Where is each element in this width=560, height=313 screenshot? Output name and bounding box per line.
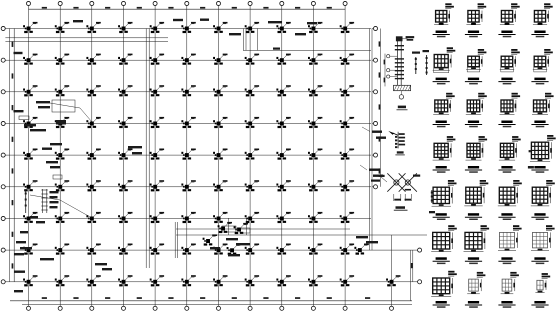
- brace detail circles: [394, 180, 399, 185]
- left stub on KZ-16 square: [529, 150, 531, 152]
- dimension text left span DE: [12, 137, 14, 142]
- column KZ H7: [213, 244, 227, 255]
- column KZ H11: [340, 244, 354, 255]
- column section detail KZ-8: [531, 49, 552, 84]
- grid line 7 (vertical axis): [218, 6, 220, 306]
- column KZ extra near stair: [203, 234, 217, 245]
- column section detail KZ-1: [433, 3, 454, 37]
- column KZ F11: [340, 180, 354, 191]
- column KZ A11: [340, 22, 354, 33]
- grid bubble 2 bottom: [58, 306, 62, 310]
- column KZ F10: [308, 180, 322, 191]
- dimension text left span GH: [12, 232, 14, 237]
- column KZ G1: [23, 212, 37, 223]
- column KZ I2: [55, 275, 69, 286]
- column section detail KZ-28: [531, 273, 550, 308]
- grid bubble 6 top: [185, 1, 189, 5]
- column KZ F8: [245, 180, 259, 191]
- column KZ E4: [118, 149, 132, 160]
- grid bubble G left: [1, 216, 5, 220]
- column elevation label Z-1: [398, 106, 406, 109]
- column section detail KZ-15: [498, 136, 520, 173]
- grid bubble 1 top: [26, 1, 30, 5]
- note text bottom mid: [95, 263, 107, 265]
- column KZ C6: [181, 85, 195, 96]
- grid bubble 1 bottom: [26, 306, 30, 310]
- note text above axis B span 7: [229, 33, 241, 35]
- expansion joint double line (vertical): [145, 29, 147, 269]
- column section detail KZ-23: [498, 225, 522, 264]
- column KZ C11: [340, 85, 354, 96]
- grid bubble A right: [372, 28, 373, 30]
- column KZ E8: [245, 149, 259, 160]
- column KZ F7: [213, 180, 227, 191]
- dimension text bottom span 3: [105, 297, 110, 299]
- column elevation left dimension: [384, 54, 386, 87]
- column KZ A4: [118, 22, 132, 33]
- stair notes: [226, 238, 238, 240]
- grid line 10 (vertical axis): [312, 6, 314, 306]
- dimension text bottom span 5: [168, 297, 173, 299]
- note box left C-D: [19, 116, 29, 120]
- dimension text bottom span 7: [232, 297, 237, 299]
- column KZ B7: [213, 54, 227, 65]
- plan right edge wall line: [369, 29, 371, 251]
- column KZ I7: [213, 275, 227, 286]
- column KZ G7: [213, 212, 227, 223]
- grid bubble B left: [1, 58, 5, 62]
- detail 2-2 arrow: [388, 131, 394, 135]
- column KZ E9: [276, 149, 290, 160]
- column section detail KZ-13: [433, 136, 456, 173]
- brace detail note below: [405, 189, 411, 191]
- right dimension line upper rows: [380, 29, 382, 187]
- column KZ B4: [118, 54, 132, 65]
- leader line left B: [50, 103, 92, 122]
- note left of KZ-17 label: [429, 211, 435, 213]
- column KZ D8: [245, 117, 259, 128]
- column section detail KZ-18: [464, 180, 488, 220]
- dimension text right span: [379, 104, 381, 109]
- column elevation top flag: [403, 38, 408, 40]
- column section detail KZ-3: [498, 3, 519, 37]
- dimension text right span: [379, 168, 381, 173]
- column KZ I10: [308, 275, 322, 286]
- column elevation left callout circles: [387, 55, 390, 58]
- dimension text bottom span 8: [263, 297, 268, 299]
- extra wide label KZ-16a: [528, 166, 534, 169]
- right dimension line lower rows: [412, 250, 414, 282]
- column KZ E7: [213, 149, 227, 160]
- column KZ D3: [86, 117, 100, 128]
- column section detail KZ-20: [531, 180, 555, 220]
- column KZ G3: [86, 212, 100, 223]
- column section detail KZ-16: [530, 135, 556, 173]
- top dimension line: [29, 8, 346, 10]
- column KZ I5: [150, 275, 164, 286]
- note text bottom left upper: [14, 271, 25, 273]
- column KZ F6: [181, 180, 195, 191]
- dimension text top span 10: [327, 7, 332, 9]
- column KZ A10: [308, 22, 322, 33]
- column section detail KZ-9: [433, 93, 455, 128]
- column KZ B1: [23, 54, 37, 65]
- note box left B area: [52, 100, 75, 112]
- column elevation base cap: [394, 85, 411, 90]
- grid bubble C right: [372, 91, 373, 93]
- column section detail KZ-6: [465, 49, 487, 84]
- column section detail KZ-14: [465, 136, 487, 173]
- rebar count bracket 1: [415, 57, 417, 74]
- note text left C-D: [14, 110, 24, 112]
- grid bubble I left: [1, 280, 5, 284]
- stair well box 1: [222, 226, 236, 232]
- note text above axis A span 8: [268, 21, 282, 23]
- grid bubble 3 top: [90, 1, 94, 5]
- column section detail KZ-12: [531, 93, 553, 128]
- column KZ H5: [150, 244, 164, 255]
- column KZ E3: [86, 149, 100, 160]
- column KZ E2: [55, 149, 69, 160]
- column KZ stair a: [218, 222, 232, 233]
- grid line I (horizontal axis): [5, 281, 417, 283]
- column KZ D10: [308, 117, 322, 128]
- column KZ I9: [276, 275, 290, 286]
- column KZ D5: [150, 117, 164, 128]
- detail 2-2 label: [397, 151, 404, 153]
- column KZ H10: [308, 244, 322, 255]
- column elevation base circle: [399, 95, 403, 99]
- grid bubble 7 top: [216, 1, 220, 5]
- detail 2-2 left studs: [395, 136, 397, 138]
- column KZ D4: [118, 117, 132, 128]
- bracket left of ladder: [25, 190, 27, 213]
- column KZ F5: [150, 180, 164, 191]
- column KZ H1: [23, 244, 37, 255]
- grid bubble 9 bottom: [280, 306, 284, 310]
- column KZ stair c: [227, 244, 241, 255]
- column KZ H9: [276, 244, 290, 255]
- grid line C (horizontal axis): [5, 91, 371, 93]
- note small box left C: [56, 120, 66, 125]
- column section detail KZ-10: [465, 93, 487, 128]
- column KZ stair b: [234, 223, 248, 234]
- grid bubble A left: [1, 26, 5, 30]
- grid line F (horizontal axis): [5, 186, 371, 188]
- column KZ C8: [245, 85, 259, 96]
- dimension text top span 8: [263, 7, 268, 9]
- dimension text bottom span 4: [137, 297, 142, 299]
- column KZ extra G-right: [354, 244, 368, 255]
- dimension text bottom span 1: [42, 297, 47, 299]
- grid bubble 8 bottom: [248, 306, 252, 310]
- dimension text top span 7: [232, 7, 237, 9]
- column KZ H3: [86, 244, 100, 255]
- note text left A-B: [14, 52, 23, 54]
- column KZ A8: [245, 22, 259, 33]
- column section detail KZ-11: [498, 93, 520, 128]
- column KZ C3: [86, 85, 100, 96]
- column KZ I8: [245, 275, 259, 286]
- grid line D (horizontal axis): [5, 123, 371, 125]
- column elevation top anchor: [396, 36, 403, 41]
- note text left B1: [36, 101, 50, 103]
- grid bubble 5 bottom: [153, 306, 157, 310]
- dimension text bottom span 9: [295, 297, 300, 299]
- grid bubble 5 top: [153, 1, 157, 5]
- column section detail KZ-2: [465, 3, 486, 37]
- column KZ C1: [23, 85, 37, 96]
- grid bubble F right: [372, 186, 373, 188]
- grid bubble H right extension: [418, 248, 422, 252]
- column section detail KZ-19: [498, 180, 522, 220]
- grid bubble C left: [1, 90, 5, 94]
- dimension text left span AB: [12, 42, 14, 47]
- dimension text left span BC: [12, 73, 14, 78]
- left dimension chain line outer: [8, 29, 10, 282]
- column KZ H6: [181, 244, 195, 255]
- note text on mezzanine line: [273, 48, 280, 50]
- column section detail KZ-26: [465, 272, 486, 308]
- column section detail KZ-7: [498, 49, 519, 84]
- column KZ A9: [276, 22, 290, 33]
- rebar bracket left of KZ-17: [431, 190, 433, 203]
- column KZ G10: [308, 212, 322, 223]
- grid line 11 (vertical axis): [344, 6, 346, 306]
- column KZ C10: [308, 85, 322, 96]
- column KZ G9: [276, 212, 290, 223]
- grid bubble 6 bottom: [185, 306, 189, 310]
- dimension text top span 1: [42, 7, 47, 9]
- column KZ F1: [23, 180, 37, 191]
- column KZ F3: [86, 180, 100, 191]
- column KZ C2: [55, 85, 69, 96]
- column KZ G2: [55, 212, 69, 223]
- column section detail KZ-17: [432, 180, 457, 220]
- note text left F cluster: [30, 216, 38, 218]
- long beam line to detail area: [176, 234, 427, 236]
- grid line E (horizontal axis): [5, 154, 371, 156]
- column KZ B3: [86, 54, 100, 65]
- note text near axis H right: [356, 236, 368, 238]
- dimension text bottom span 10: [327, 297, 332, 299]
- interior partition double line: [174, 222, 176, 258]
- column KZ D2: [55, 117, 69, 128]
- column section detail KZ-4: [531, 3, 552, 37]
- column KZ A3: [86, 22, 100, 33]
- column KZ D6: [181, 117, 195, 128]
- column KZ G4: [118, 212, 132, 223]
- column KZ I6: [181, 275, 195, 286]
- detail 2-2 right bars: [399, 133, 405, 135]
- column section detail KZ-22: [464, 225, 490, 264]
- column section detail KZ-5: [433, 47, 456, 84]
- dimension text bottom right span: [365, 297, 370, 299]
- grid bubble B right: [372, 59, 373, 61]
- note text mid joint: [128, 146, 142, 148]
- dimension text right span: [379, 41, 381, 46]
- column KZ I11: [340, 275, 354, 286]
- column KZ F9: [276, 180, 290, 191]
- dimension text top span 3: [105, 7, 110, 9]
- note text above axis A span 5-6: [173, 19, 183, 21]
- left dimension line: [13, 29, 15, 282]
- column KZ extra I-right: [386, 275, 400, 286]
- dimension text left span FG: [12, 200, 14, 205]
- column KZ F2: [55, 180, 69, 191]
- note text right edge cluster 2: [369, 169, 379, 171]
- note text left G cluster: [16, 241, 26, 243]
- note text above axis A span 6-7: [200, 19, 209, 21]
- grid bubble E right: [372, 154, 373, 156]
- mezzanine vertical: [257, 29, 259, 51]
- note text right edge cluster 1: [372, 131, 382, 133]
- grid bubble H left: [1, 248, 5, 252]
- note text above axis A span 9: [307, 22, 317, 24]
- column KZ D7: [213, 117, 227, 128]
- grid line G (horizontal axis): [5, 218, 371, 220]
- detail 2-2 vertical bar: [397, 132, 399, 149]
- wall line pair below axis A: [5, 37, 168, 39]
- mezzanine vertical pair: [243, 29, 245, 51]
- grid line 8 (vertical axis): [249, 6, 251, 306]
- wall line near axis H top: [176, 228, 350, 230]
- grid bubble 10 bottom: [311, 306, 315, 310]
- column KZ E11: [340, 149, 354, 160]
- column KZ D9: [276, 117, 290, 128]
- dimension text left span EF: [12, 168, 14, 173]
- grid bubble 7 bottom: [216, 306, 220, 310]
- column KZ I1: [23, 275, 37, 286]
- grid bubble 4 top: [121, 1, 125, 5]
- column KZ E1: [23, 149, 37, 160]
- grid line B (horizontal axis): [5, 59, 371, 61]
- note text right edge cluster 3: [371, 180, 380, 182]
- column KZ B10: [308, 54, 322, 65]
- column KZ A6: [181, 22, 195, 33]
- column section detail KZ-21: [431, 225, 457, 264]
- column KZ H4: [118, 244, 132, 255]
- grid bubble extra bottom right: [389, 306, 393, 310]
- dimension text top span 5: [168, 7, 173, 9]
- stair well box 2: [240, 228, 250, 233]
- dimension text top span 9: [295, 7, 300, 9]
- stair partition vertical: [227, 218, 229, 235]
- column KZ C7: [213, 85, 227, 96]
- grid bubble 3 bottom: [90, 306, 94, 310]
- column KZ B5: [150, 54, 164, 65]
- column KZ G5: [150, 212, 164, 223]
- brace detail label 1-1: [396, 206, 406, 209]
- column KZ A7: [213, 22, 227, 33]
- bottom dimension line 1: [10, 300, 412, 302]
- column KZ E10: [308, 149, 322, 160]
- grid bubble 2 top: [58, 1, 62, 5]
- grid bubble D right: [372, 123, 373, 125]
- column KZ B2: [55, 54, 69, 65]
- dimension text right span: [379, 72, 381, 77]
- column KZ I3: [86, 275, 100, 286]
- column KZ G11: [340, 212, 354, 223]
- grid bubble 10 top: [311, 1, 315, 5]
- brace detail X lines: [387, 173, 405, 191]
- grid bubble E left: [1, 153, 5, 157]
- note text above axis B span 9: [295, 33, 306, 35]
- column KZ I4: [118, 275, 132, 286]
- grid bubble 9 top: [280, 1, 284, 5]
- dimension text left span HI: [12, 263, 14, 268]
- column KZ B6: [181, 54, 195, 65]
- grid bubble F left: [1, 185, 5, 189]
- dimension text left span CD: [12, 105, 14, 110]
- bottom-right extension wall line: [391, 235, 393, 306]
- brace detail dimension: [393, 194, 395, 201]
- dimension text top span 4: [137, 7, 142, 9]
- column KZ D11: [340, 117, 354, 128]
- column elevation tie rungs: [395, 45, 404, 46]
- column KZ G8: [245, 212, 259, 223]
- column KZ E6: [181, 149, 195, 160]
- grid line 5 (vertical axis): [154, 6, 156, 306]
- column KZ A1: [23, 22, 37, 33]
- grid line 6 (vertical axis): [186, 6, 188, 306]
- grid bubble I right extension: [418, 280, 422, 284]
- note text above axis A span 2: [73, 20, 83, 22]
- dimension text bottom span 6: [200, 297, 205, 299]
- column KZ F4: [118, 180, 132, 191]
- column elevation detail Z-1 shaft: [396, 37, 398, 86]
- mezzanine edge line below axis A right: [243, 49, 371, 51]
- grid bubble 11 bottom: [343, 306, 347, 310]
- grid line 2 (vertical axis): [59, 6, 61, 306]
- grid bubble 8 top: [248, 1, 252, 5]
- grid line 9 (vertical axis): [281, 6, 283, 306]
- grid line 4 (vertical axis): [123, 6, 125, 306]
- note text left C1: [50, 143, 62, 145]
- note box left D1: [53, 175, 62, 179]
- note text left B2: [24, 124, 36, 126]
- note texts right of ladder: [50, 191, 59, 193]
- grid line H (horizontal axis): [5, 249, 417, 251]
- grid line 1 (vertical axis): [28, 6, 30, 306]
- column section detail KZ-25: [431, 271, 457, 308]
- column KZ C9: [276, 85, 290, 96]
- note text left D1: [46, 161, 58, 163]
- column KZ H2: [55, 244, 69, 255]
- note text bottom left: [14, 290, 23, 292]
- column section detail KZ-24: [531, 225, 555, 264]
- grid bubble 4 bottom: [121, 306, 125, 310]
- leader line left E: [30, 195, 92, 218]
- column KZ C4: [118, 85, 132, 96]
- brace detail note upper left: [379, 175, 385, 177]
- column KZ B8: [245, 54, 259, 65]
- column KZ B11: [340, 54, 354, 65]
- column KZ E5: [150, 149, 164, 160]
- column KZ H8: [245, 244, 259, 255]
- column KZ D1: [23, 117, 37, 128]
- column KZ B9: [276, 54, 290, 65]
- dimension text top span 6: [200, 7, 205, 9]
- grid bubble D left: [1, 121, 5, 125]
- column section detail KZ-27: [498, 272, 518, 308]
- dimension text right span: [379, 136, 381, 141]
- column KZ A5: [150, 22, 164, 33]
- grid line 3 (vertical axis): [91, 6, 93, 306]
- dimension text top span 2: [73, 7, 78, 9]
- stair ladder detail left E: [41, 189, 43, 213]
- column KZ C5: [150, 85, 164, 96]
